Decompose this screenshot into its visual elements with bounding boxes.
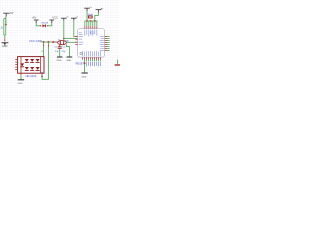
wire IC pin 39 stub bbox=[64, 37, 78, 39]
pin tick resonator left bbox=[55, 41, 58, 43]
node junction B bbox=[43, 41, 45, 43]
wire RESET pin down bbox=[84, 60, 86, 73]
node junction D bbox=[86, 20, 88, 22]
wire from +5V to D1 bbox=[36, 23, 40, 26]
svg-text:GND: GND bbox=[18, 83, 23, 85]
LED segment b bbox=[30, 59, 34, 62]
IC right pins (red stubs) bbox=[105, 36, 107, 50]
display inner divider right bbox=[40, 57, 42, 74]
IC bottom pins (red stubs) bbox=[83, 57, 101, 59]
display left pins bbox=[15, 60, 17, 70]
svg-text:+5V: +5V bbox=[32, 16, 37, 20]
rail above IC top pins bbox=[85, 20, 98, 22]
display LED1 body bbox=[18, 57, 44, 74]
pin stub off-sheet bbox=[115, 64, 120, 66]
power symbol VCC (mid-right) bbox=[49, 20, 54, 23]
display inner divider left bbox=[20, 57, 22, 74]
wire resonator centre pin to ground 2 bbox=[66, 44, 69, 56]
svg-text:IC1: IC1 bbox=[90, 31, 94, 34]
svg-text:GND: GND bbox=[2, 45, 8, 48]
wire AREF down to IC pin bbox=[74, 21, 78, 37]
wire AVCC2 jog down to rail bbox=[95, 12, 99, 21]
svg-text:GND: GND bbox=[82, 76, 87, 78]
wire VCC down to rail bbox=[86, 11, 88, 21]
wire J1 to pin bbox=[4, 35, 6, 39]
power symbol VCC (top-left) bbox=[3, 13, 9, 16]
IC bottom pin names (vertical blue) bbox=[82, 51, 101, 56]
IC top pin names (vertical blue) bbox=[84, 30, 97, 37]
wire C1 to ground bbox=[59, 49, 61, 57]
connector J1 legs bbox=[4, 19, 6, 36]
inductor L1 bbox=[88, 16, 92, 18]
node junction H bbox=[63, 38, 65, 40]
wires rail down to IC top pins bbox=[85, 21, 97, 26]
svg-text:RESET: RESET bbox=[76, 63, 85, 66]
svg-text:GND: GND bbox=[57, 60, 62, 62]
ground under RESET bbox=[81, 72, 87, 74]
LED segment c bbox=[36, 59, 40, 62]
diode D1 bbox=[40, 24, 48, 27]
pin name tick (bottom-right) bbox=[41, 75, 43, 77]
power symbol VCC (above IC) bbox=[84, 8, 90, 11]
power symbol +5V (mid) bbox=[34, 20, 39, 23]
ground under display bbox=[18, 79, 24, 81]
wire drop to display top pin bbox=[43, 42, 45, 57]
resonator Y1 body bbox=[58, 41, 67, 45]
pin tick on long drop bbox=[47, 45, 49, 47]
ground for C1 bbox=[57, 56, 63, 58]
display bottom-left pin bbox=[20, 73, 22, 75]
wire from D1 to VCC symbol bbox=[47, 23, 51, 26]
node junction C2 bbox=[52, 41, 54, 43]
wire AVCC down to resonator node bbox=[63, 21, 65, 41]
svg-text:+5V: +5V bbox=[9, 11, 14, 15]
wire long drop to display bottom-right pin bbox=[42, 42, 48, 79]
LED segment e bbox=[25, 67, 29, 70]
IC U1 pin-1 mark bbox=[80, 52, 82, 54]
svg-text:HD-A103: HD-A103 bbox=[26, 74, 37, 78]
LED segment f bbox=[30, 67, 34, 70]
wire from VCC down bbox=[5, 17, 7, 25]
capacitor C1 bbox=[58, 47, 62, 49]
net labels under bottom pins (vertical blue) bbox=[86, 62, 101, 67]
background grid bbox=[0, 0, 120, 120]
svg-text:VCC GND: VCC GND bbox=[29, 39, 42, 43]
wire rail to resonator bbox=[41, 41, 56, 43]
power symbol AREF bbox=[71, 18, 77, 20]
wire display to ground bbox=[20, 75, 22, 79]
IC right pin names bbox=[100, 36, 104, 51]
node junction E bbox=[90, 20, 92, 22]
node junction G bbox=[84, 62, 86, 64]
display bottom-right pin bbox=[41, 73, 43, 76]
wire stub off-sheet bbox=[117, 60, 119, 65]
node junction F bbox=[94, 20, 96, 22]
power symbol AVCC2 bbox=[96, 10, 102, 13]
LED segment d bbox=[20, 63, 24, 66]
ground GND (left) bbox=[2, 43, 9, 45]
svg-text:1N4148: 1N4148 bbox=[41, 23, 49, 25]
pin of J1 (red stub) bbox=[4, 39, 6, 42]
resonator plates bbox=[60, 41, 63, 44]
pin tick C1 top bbox=[59, 45, 61, 46]
IC left pins (red stubs) bbox=[75, 37, 77, 45]
wires on IC right pins bbox=[107, 36, 110, 50]
pin tick on drop bbox=[43, 45, 45, 47]
wires under IC bottom pins bbox=[87, 60, 101, 62]
IC U1 body bbox=[78, 29, 105, 58]
node junction A bbox=[5, 24, 7, 26]
svg-text:GND: GND bbox=[66, 60, 71, 62]
LED segment g bbox=[36, 67, 40, 70]
LED segment a bbox=[25, 59, 29, 62]
IC left pin names bbox=[79, 32, 84, 44]
power symbol AVCC bbox=[61, 18, 67, 20]
IC top pins (red stubs) bbox=[85, 26, 97, 28]
svg-text:VCC: VCC bbox=[52, 16, 58, 20]
wire resonator to IC pin XTAL1 bbox=[66, 41, 77, 43]
wire cap C1 top bbox=[59, 45, 61, 47]
ground for resonator centre bbox=[67, 56, 73, 58]
node junction C bbox=[47, 41, 49, 43]
